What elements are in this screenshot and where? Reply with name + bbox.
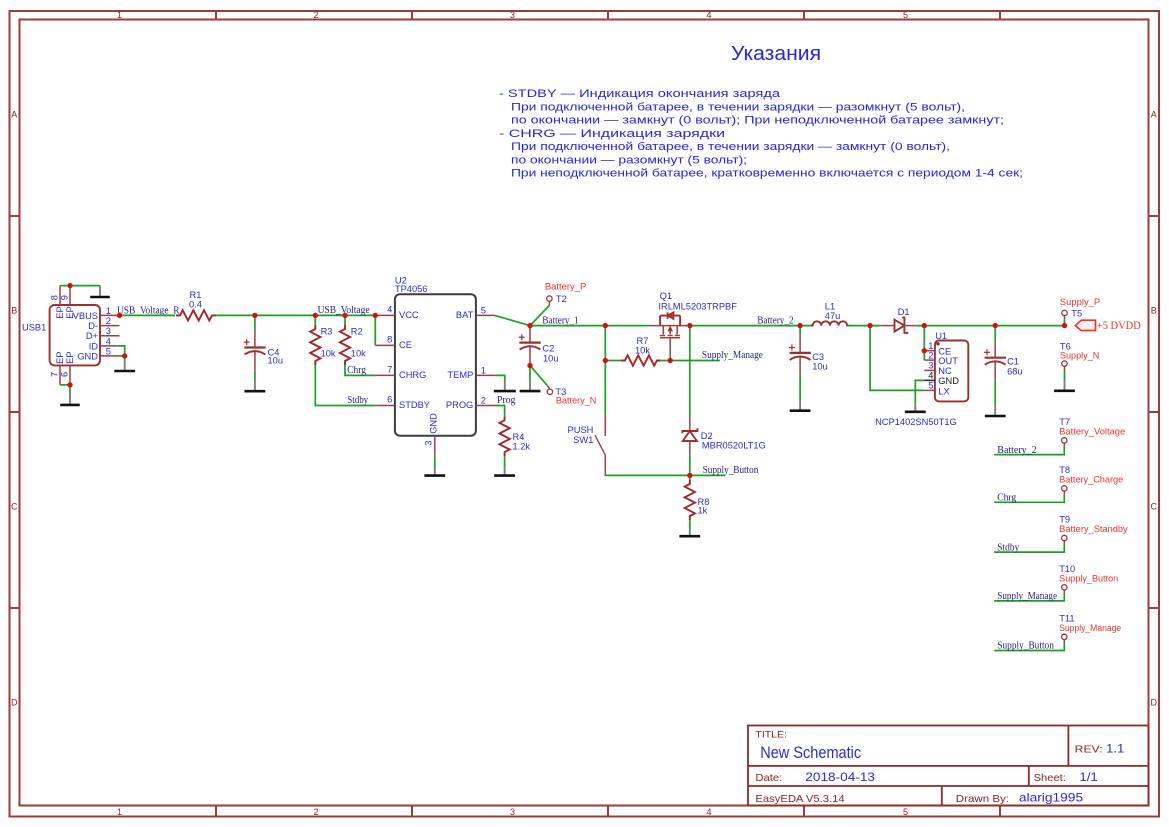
- wire Q1 node to D2: [689, 326, 691, 416]
- svg-text:1: 1: [117, 10, 122, 20]
- svg-text:При подключенной батарее, в те: При подключенной батарее, в течении заря…: [511, 101, 965, 113]
- svg-text:Указания: Указания: [731, 43, 821, 65]
- junction C4 node: [252, 313, 257, 318]
- ground R4: [504, 466, 506, 474]
- svg-text:1: 1: [106, 306, 111, 316]
- wire to SW1: [604, 326, 606, 416]
- test point T9: [1062, 535, 1067, 540]
- svg-text:2: 2: [106, 316, 111, 326]
- diode D2 schottky: [682, 416, 697, 456]
- svg-text:B: B: [11, 305, 17, 315]
- USB1 pin 3 D+: [100, 335, 120, 337]
- svg-text:10u: 10u: [812, 361, 828, 371]
- svg-text:ID: ID: [89, 341, 99, 351]
- U1 pin 4 GND: [924, 379, 935, 381]
- USB1 pin 4 ID: [100, 345, 118, 347]
- USB1 pin 1 VBUS: [100, 314, 120, 316]
- ground shield top: [99, 286, 101, 296]
- svg-text:Supply_Manage: Supply_Manage: [997, 591, 1057, 602]
- test point T3: [548, 386, 550, 389]
- svg-text:0.4: 0.4: [189, 300, 202, 310]
- svg-text:New Schematic: New Schematic: [760, 744, 861, 762]
- svg-text:T9: T9: [1059, 515, 1070, 525]
- svg-text:T11: T11: [1059, 613, 1074, 623]
- svg-text:3: 3: [510, 807, 515, 817]
- svg-text:VCC: VCC: [399, 310, 419, 320]
- svg-text:10k: 10k: [351, 348, 366, 358]
- svg-text:D2: D2: [701, 431, 713, 441]
- svg-text:D1: D1: [898, 307, 910, 317]
- wire T2 to node: [530, 305, 549, 325]
- svg-text:Sheet:: Sheet:: [1034, 772, 1066, 784]
- wire T6 to ground: [1064, 370, 1066, 380]
- wire SW node to R7: [605, 360, 621, 362]
- ground TEMP: [504, 381, 506, 390]
- ground U1: [914, 404, 916, 410]
- junction C3 node: [797, 323, 802, 328]
- svg-text:10u: 10u: [543, 354, 559, 364]
- svg-text:SW1: SW1: [573, 435, 593, 445]
- junction shield top: [67, 283, 72, 288]
- U2 pin 7 CHRG: [375, 374, 395, 376]
- svg-text:GND: GND: [428, 413, 438, 434]
- wire D2 to Supply_Button: [689, 455, 691, 475]
- ground USB GND: [124, 361, 126, 370]
- transistor Q1 symbol: [649, 312, 687, 356]
- svg-text:Supply_Button: Supply_Button: [703, 465, 759, 476]
- svg-text:10k: 10k: [635, 346, 650, 356]
- junction C2 bottom: [527, 363, 532, 368]
- notes text block: [499, 88, 1023, 179]
- junction pin5: [122, 353, 127, 358]
- svg-text:C: C: [1151, 501, 1158, 511]
- svg-text:R3: R3: [321, 326, 333, 336]
- junction CE node: [373, 313, 378, 318]
- wire LX to L1 node: [870, 326, 924, 391]
- svg-text:C1: C1: [1007, 356, 1019, 366]
- svg-text:R2: R2: [351, 326, 363, 336]
- svg-text:Stdby: Stdby: [347, 395, 368, 406]
- test point T6: [1062, 361, 1067, 366]
- capacitor C4: [254, 331, 256, 348]
- svg-text:EasyEDA V5.3.14: EasyEDA V5.3.14: [755, 793, 844, 805]
- svg-text:EP: EP: [65, 351, 75, 363]
- svg-text:7: 7: [387, 364, 392, 374]
- resistor R3: [310, 325, 320, 365]
- capacitor C2: [529, 326, 531, 343]
- test point T2: [547, 296, 552, 301]
- svg-text:2018-04-13: 2018-04-13: [805, 770, 875, 784]
- junction R2 node: [342, 313, 347, 318]
- wire pin4 to pin5: [118, 346, 125, 356]
- svg-text:3: 3: [928, 361, 933, 371]
- svg-text:5: 5: [903, 10, 908, 20]
- wire shield top to ground: [60, 285, 100, 287]
- border ruler letters left: [11, 109, 18, 707]
- wire D1 to U1 node: [916, 325, 996, 327]
- svg-text:D: D: [1151, 697, 1158, 707]
- svg-text:Battery_1: Battery_1: [542, 315, 579, 326]
- title block frame: [748, 726, 1149, 806]
- U2 pin 8 CE: [375, 344, 395, 346]
- wire C4 to ground: [254, 371, 256, 381]
- wire T3 diagonal: [530, 366, 548, 387]
- svg-text:8: 8: [387, 334, 392, 344]
- svg-text:Supply_P: Supply_P: [1060, 297, 1100, 307]
- U1 pin 1 CE: [924, 350, 935, 352]
- junction Battery_1 node: [527, 323, 532, 328]
- svg-text:3: 3: [510, 10, 515, 20]
- svg-text:TEMP: TEMP: [447, 370, 473, 380]
- wire T10 net: [994, 594, 1064, 601]
- junction R3 node: [313, 313, 318, 318]
- svg-text:Supply_Button: Supply_Button: [1059, 574, 1118, 584]
- svg-text:Stdby: Stdby: [997, 542, 1019, 553]
- inductor L1: [811, 321, 850, 325]
- svg-text:Q1: Q1: [660, 291, 672, 301]
- U2 pin 6 STDBY: [375, 405, 395, 407]
- test point T11: [1062, 634, 1067, 639]
- svg-text:4: 4: [706, 807, 711, 817]
- svg-text:U1: U1: [935, 331, 947, 341]
- U2 pin 5 BAT: [476, 314, 495, 316]
- U1 pin1 mark: [936, 342, 939, 345]
- wire R7 to gate: [661, 360, 670, 362]
- svg-text:T8: T8: [1059, 465, 1070, 475]
- svg-text:8: 8: [50, 295, 60, 300]
- wire U2 GND to ground: [434, 456, 436, 466]
- svg-text:GND: GND: [938, 376, 959, 386]
- svg-text:BAT: BAT: [456, 310, 474, 320]
- svg-text:9: 9: [60, 295, 70, 300]
- svg-text:Chrg: Chrg: [997, 493, 1016, 504]
- svg-text:Supply_Manage: Supply_Manage: [702, 350, 764, 361]
- wire BAT diagonal: [495, 315, 530, 325]
- svg-text:B: B: [1151, 305, 1157, 315]
- resistor R7: [621, 336, 661, 366]
- ground U2 GND: [434, 466, 436, 474]
- wire Battery_1 run: [530, 325, 649, 327]
- wire CE branch: [374, 315, 376, 345]
- wire C1 to ground: [994, 380, 996, 406]
- wire R2 to CHRG: [345, 365, 375, 375]
- resistor R2: [340, 325, 350, 365]
- wire T11 net: [994, 643, 1064, 650]
- svg-text:по окончании — замкнут (0 воль: по окончании — замкнут (0 вольт); При не…: [511, 115, 1004, 127]
- svg-text:3: 3: [106, 326, 111, 336]
- svg-text:VBUS: VBUS: [73, 311, 98, 321]
- USB1 pin 5 GND: [100, 355, 120, 357]
- junction CE pin node: [922, 348, 927, 353]
- ground C2: [529, 381, 531, 390]
- svg-text:C2: C2: [542, 344, 554, 354]
- wire pin5 to ground: [124, 356, 126, 361]
- svg-text:TITLE:: TITLE:: [755, 729, 787, 740]
- test point T10: [1062, 585, 1067, 590]
- wire T9 net: [994, 545, 1064, 553]
- wire C3 to ground: [799, 375, 801, 400]
- connector USB1 body: [50, 305, 100, 365]
- wire T7 net: [994, 447, 1064, 455]
- USB1 pin 2 D-: [100, 325, 120, 327]
- svg-text:Battery_N: Battery_N: [556, 395, 597, 405]
- junction T5 node: [1062, 323, 1067, 328]
- svg-text:PROG: PROG: [446, 400, 473, 410]
- junction Q1 drain node: [687, 323, 692, 328]
- svg-text:LX: LX: [938, 386, 949, 396]
- test point T5: [1064, 319, 1066, 325]
- junction C1 node: [993, 323, 998, 328]
- wire Supply_Button: [605, 474, 725, 477]
- svg-text:При подключенной батарее, в те: При подключенной батарее, в течении заря…: [511, 141, 950, 153]
- resistor R4: [499, 416, 509, 456]
- svg-text:OUT: OUT: [938, 356, 958, 366]
- junction shield bottom: [67, 382, 72, 387]
- diode D1: [880, 317, 916, 333]
- svg-text:GND: GND: [77, 351, 98, 361]
- svg-text:1k: 1k: [698, 505, 708, 515]
- wire T8 net: [994, 495, 1064, 502]
- svg-text:D: D: [11, 697, 18, 707]
- svg-text:IRLML5203TRPBF: IRLML5203TRPBF: [658, 302, 737, 312]
- wire TEMP to ground: [495, 375, 504, 381]
- svg-text:Supply_Button: Supply_Button: [997, 641, 1054, 652]
- svg-text:C: C: [11, 501, 18, 511]
- svg-text:+5 DVDD: +5 DVDD: [1097, 318, 1141, 332]
- wire R2 stub: [344, 315, 346, 325]
- svg-text:1.2k: 1.2k: [513, 442, 531, 452]
- svg-text:4: 4: [928, 371, 933, 381]
- junction Supply_Button node: [687, 473, 692, 478]
- junction L1-D1 node: [867, 323, 872, 328]
- power flag +5 DVDD: [1075, 320, 1095, 330]
- svg-text:- STDBY — Индикация окончания: - STDBY — Индикация окончания заряда: [499, 88, 781, 100]
- svg-text:2: 2: [313, 807, 318, 817]
- svg-text:- CHRG — Индикация зарядки: - CHRG — Индикация зарядки: [499, 128, 725, 140]
- svg-text:A: A: [11, 109, 17, 119]
- svg-text:10u: 10u: [268, 356, 284, 366]
- svg-text:MBR0520LT1G: MBR0520LT1G: [702, 440, 766, 450]
- svg-text:CE: CE: [938, 346, 951, 356]
- IC U2 body: [395, 294, 476, 436]
- resistor R8: [689, 475, 691, 480]
- svg-text:1/1: 1/1: [1079, 770, 1098, 784]
- svg-text:CE: CE: [399, 340, 412, 350]
- svg-text:EP: EP: [55, 351, 65, 363]
- U1 pin 3 NC: [924, 369, 935, 371]
- wire R4 to ground: [504, 456, 506, 466]
- svg-text:по окончании — разомкнут (5 во: по окончании — разомкнут (5 вольт);: [511, 154, 747, 166]
- ground C3: [799, 400, 801, 409]
- svg-text:2: 2: [481, 396, 486, 406]
- svg-text:Supply_Manage: Supply_Manage: [1059, 623, 1121, 633]
- svg-text:A: A: [1151, 109, 1157, 119]
- svg-text:T2: T2: [556, 294, 567, 304]
- svg-text:5: 5: [106, 346, 111, 356]
- wire C4 stub: [254, 315, 256, 330]
- svg-text:R1: R1: [190, 290, 202, 300]
- junction gate node: [668, 358, 673, 363]
- svg-text:T7: T7: [1059, 417, 1070, 427]
- wire R3 to STDBY: [315, 365, 375, 406]
- svg-text:7: 7: [50, 372, 60, 377]
- svg-text:L1: L1: [825, 302, 835, 312]
- svg-text:6: 6: [60, 372, 70, 377]
- wire U1 GND to ground: [915, 380, 924, 404]
- wire Supply_Manage: [670, 360, 720, 362]
- test point T7: [1062, 438, 1067, 443]
- ground T6: [1064, 380, 1066, 389]
- ground C1: [994, 406, 996, 415]
- svg-text:D+: D+: [86, 331, 98, 341]
- U2 pin 4 VCC: [375, 314, 395, 316]
- border ruler numbers bottom: [117, 807, 908, 817]
- svg-text:T5: T5: [1071, 309, 1082, 319]
- svg-text:alarig1995: alarig1995: [1019, 791, 1084, 805]
- IC U1 body: [935, 341, 968, 402]
- svg-text:5: 5: [928, 381, 933, 391]
- capacitor C3: [799, 326, 801, 336]
- svg-text:Prog: Prog: [497, 395, 516, 406]
- svg-text:D-: D-: [88, 321, 98, 331]
- svg-text:1: 1: [481, 366, 486, 376]
- svg-text:6: 6: [387, 395, 392, 405]
- svg-text:Drawn By:: Drawn By:: [956, 793, 1009, 805]
- ground C4: [254, 381, 256, 390]
- svg-text:5: 5: [481, 306, 486, 316]
- svg-text:R7: R7: [637, 336, 649, 346]
- svg-text:68u: 68u: [1007, 366, 1023, 376]
- USB1 pin 6 shield: [69, 365, 71, 385]
- svg-text:Battery_Charge: Battery_Charge: [1059, 475, 1123, 485]
- svg-text:REV:: REV:: [1075, 744, 1103, 756]
- svg-text:Battery_2: Battery_2: [997, 445, 1036, 456]
- border ruler numbers top: [117, 10, 908, 20]
- svg-text:2: 2: [313, 10, 318, 20]
- wire U1 CE branch: [923, 326, 925, 361]
- svg-text:T10: T10: [1059, 564, 1075, 574]
- wire gate stub: [669, 356, 671, 360]
- U1 pin 2 OUT: [924, 359, 935, 361]
- wire C2 to ground: [529, 366, 531, 381]
- wire R3 stub: [314, 315, 316, 325]
- svg-text:4: 4: [387, 304, 392, 314]
- svg-text:CHRG: CHRG: [399, 370, 426, 380]
- svg-text:NC: NC: [938, 366, 952, 376]
- capacitor C1: [994, 326, 996, 341]
- junction SW branch: [603, 323, 608, 328]
- wire PROG to R4: [495, 406, 504, 417]
- U2 pin 2 PROG: [476, 405, 496, 407]
- svg-text:NCP1402SN50T1G: NCP1402SN50T1G: [875, 417, 957, 427]
- svg-text:10k: 10k: [321, 348, 336, 358]
- svg-text:R4: R4: [513, 432, 525, 442]
- wire shield bottom: [60, 384, 70, 386]
- USB1 pin 7 shield: [59, 365, 61, 385]
- svg-text:Date:: Date:: [755, 772, 782, 784]
- svg-text:Supply_N: Supply_N: [1060, 350, 1100, 360]
- ground R8: [689, 530, 691, 536]
- U2 pin 1 TEMP: [476, 374, 496, 376]
- ground shield bottom: [69, 394, 71, 403]
- junction VBUS node: [117, 313, 122, 318]
- wire L1 to D1: [848, 325, 881, 327]
- junction R7 left: [603, 358, 608, 363]
- resistor R1: [176, 310, 216, 320]
- svg-text:Battery_2: Battery_2: [757, 315, 794, 326]
- switch SW1: [604, 416, 606, 436]
- svg-text:1.1: 1.1: [1106, 742, 1125, 756]
- wire node to T5: [995, 325, 1064, 327]
- test point T8: [1062, 486, 1067, 491]
- svg-text:47u: 47u: [825, 311, 841, 321]
- svg-text:4: 4: [106, 336, 111, 346]
- U2 pin 3 GND: [434, 436, 436, 456]
- svg-text:Battery_Standby: Battery_Standby: [1059, 524, 1128, 534]
- svg-text:1: 1: [117, 807, 122, 817]
- border ruler letters right: [1151, 109, 1158, 707]
- U1 pin 5 LX: [924, 389, 935, 391]
- svg-text:5: 5: [903, 807, 908, 817]
- svg-text:USB1: USB1: [22, 323, 46, 333]
- svg-text:4: 4: [706, 10, 711, 20]
- wire R1 to C4 node: [216, 314, 375, 316]
- USB1 pin 8 shield: [59, 286, 61, 305]
- svg-text:Battery_P: Battery_P: [545, 282, 586, 292]
- svg-text:PUSH: PUSH: [568, 425, 594, 435]
- svg-text:TP4056: TP4056: [395, 284, 428, 294]
- svg-text:При неподключенной батарее, кр: При неподключенной батарее, кратковремен…: [511, 168, 1023, 180]
- svg-text:2: 2: [928, 350, 933, 360]
- svg-text:EP: EP: [55, 306, 65, 318]
- svg-text:STDBY: STDBY: [399, 400, 430, 410]
- wire Battery_2 run: [690, 325, 812, 327]
- wire VBUS to R1: [120, 314, 176, 316]
- wire R8 to ground: [689, 520, 691, 530]
- USB1 pin 9 shield: [69, 286, 71, 305]
- svg-text:Battery_Voltage: Battery_Voltage: [1059, 427, 1125, 437]
- svg-text:3: 3: [423, 441, 433, 446]
- svg-text:Chrg: Chrg: [347, 365, 366, 376]
- junction U1 node: [922, 323, 927, 328]
